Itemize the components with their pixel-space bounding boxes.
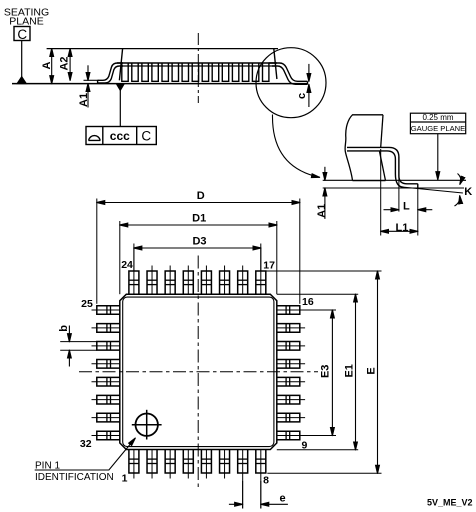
dimension L: [384, 209, 399, 211]
horizontal centerline: [79, 371, 318, 373]
pin 11: [277, 395, 300, 404]
pin 14: [277, 342, 300, 351]
datum triangle bottom: [116, 84, 124, 91]
pin 4: [183, 450, 193, 474]
detail leader arc: [272, 115, 319, 178]
svg-text:8: 8: [263, 475, 269, 487]
datum triangle left: [17, 77, 26, 84]
svg-text:E3: E3: [319, 365, 331, 378]
svg-text:A1: A1: [78, 93, 90, 107]
dimension c: [308, 64, 310, 81]
dimension A: [51, 49, 53, 84]
svg-text:b: b: [58, 325, 70, 332]
svg-text:32: 32: [80, 438, 92, 450]
pin 18: [238, 271, 248, 294]
package body inner: [123, 297, 274, 447]
pin 32: [97, 431, 120, 440]
datum C leader line: [21, 41, 23, 78]
svg-text:D: D: [197, 190, 205, 202]
dimension A2: [69, 49, 71, 81]
feature control frame leader: [119, 91, 121, 127]
dimension A1 side view: [87, 65, 89, 80]
pin 7: [238, 450, 248, 474]
standoff extension line: [84, 79, 99, 81]
side view body outline: [119, 49, 122, 81]
dimension L1: [381, 230, 418, 232]
pin 24: [129, 271, 139, 294]
dimension E3: [331, 310, 333, 436]
svg-text:A2: A2: [59, 56, 71, 70]
pin 26: [97, 324, 120, 333]
gauge plane callout box: [410, 113, 465, 134]
extension lines L L1: [380, 149, 382, 236]
svg-text:25: 25: [81, 298, 93, 310]
svg-text:L: L: [403, 201, 410, 213]
dimension D1: [119, 221, 121, 294]
seating plane baseline: [12, 83, 308, 85]
svg-text:PIN 1: PIN 1: [35, 460, 60, 471]
svg-text:1: 1: [122, 473, 128, 485]
side view centerline: [197, 33, 199, 103]
datum C box: [14, 27, 30, 41]
package body outer: [120, 294, 277, 449]
pin 6: [220, 450, 230, 474]
pin 12: [277, 377, 300, 386]
dimension E1: [277, 293, 358, 295]
pin 19: [220, 271, 230, 294]
dimension D: [96, 199, 98, 304]
svg-text:IDENTIFICATION: IDENTIFICATION: [35, 472, 114, 483]
pin 10: [277, 413, 300, 422]
svg-text:c: c: [296, 93, 308, 99]
pin 5: [201, 450, 211, 474]
svg-text:C: C: [17, 27, 27, 42]
package top extension line: [47, 48, 278, 50]
pin 22: [165, 271, 175, 294]
pin 20: [201, 271, 211, 294]
pin 1: [129, 450, 139, 474]
svg-text:0.25 mm: 0.25 mm: [422, 113, 453, 122]
pin 28: [97, 359, 120, 368]
pin 27: [97, 342, 120, 351]
flatness symbol: [88, 136, 100, 141]
pin 25: [97, 306, 120, 315]
dimension e: [242, 481, 244, 509]
pin 2: [147, 450, 157, 474]
dimension b: [60, 341, 97, 343]
dimension D3: [133, 244, 135, 272]
dimension A1 detail: [324, 167, 326, 181]
svg-text:D1: D1: [192, 212, 206, 224]
svg-text:5V_ME_V2: 5V_ME_V2: [427, 497, 473, 507]
svg-text:9: 9: [302, 439, 308, 451]
foot underside and K line: [402, 187, 463, 193]
dimension E: [256, 270, 382, 272]
svg-text:e: e: [280, 493, 286, 505]
svg-text:L1: L1: [395, 222, 408, 234]
pin 15: [277, 324, 300, 333]
svg-text:K: K: [464, 186, 472, 198]
pin 8: [256, 450, 266, 474]
svg-text:16: 16: [302, 296, 314, 308]
pin 29: [97, 377, 120, 386]
svg-text:A: A: [41, 61, 53, 69]
pin 13: [277, 359, 300, 368]
pin 3: [165, 450, 175, 474]
svg-text:D3: D3: [192, 235, 206, 247]
pin 21: [183, 271, 193, 294]
gauge plane line: [323, 179, 466, 181]
svg-text:A1: A1: [316, 204, 328, 218]
pin 1 leader: [35, 438, 136, 470]
feature control frame ccc: [86, 127, 156, 145]
pin 31: [97, 413, 120, 422]
svg-text:PLANE: PLANE: [9, 16, 43, 28]
pin 16: [277, 306, 300, 315]
svg-text:ccc: ccc: [110, 129, 130, 143]
gauge detail lead: [347, 147, 418, 183]
svg-text:E1: E1: [344, 364, 356, 377]
seating plane line detail: [323, 187, 464, 189]
pin 23: [147, 271, 157, 294]
side view body underside: [117, 62, 277, 64]
side view far leads: [122, 63, 128, 81]
svg-text:24: 24: [121, 259, 133, 271]
svg-text:E: E: [366, 367, 378, 374]
gauge detail body: [345, 115, 383, 181]
detail circle: [256, 48, 326, 118]
pin 30: [97, 395, 120, 404]
side view left lead: [98, 63, 123, 80]
svg-text:C: C: [141, 129, 151, 144]
pin 1 identification circle: [136, 414, 158, 436]
angle K arcs: [458, 174, 461, 185]
vertical centerline: [197, 256, 199, 488]
gauge plane callout leader: [437, 134, 439, 180]
svg-text:GAUGE PLANE: GAUGE PLANE: [411, 124, 465, 133]
side view right lead: [269, 63, 308, 81]
pin 17: [256, 271, 266, 294]
pin 9: [277, 431, 300, 440]
svg-text:17: 17: [263, 259, 275, 271]
